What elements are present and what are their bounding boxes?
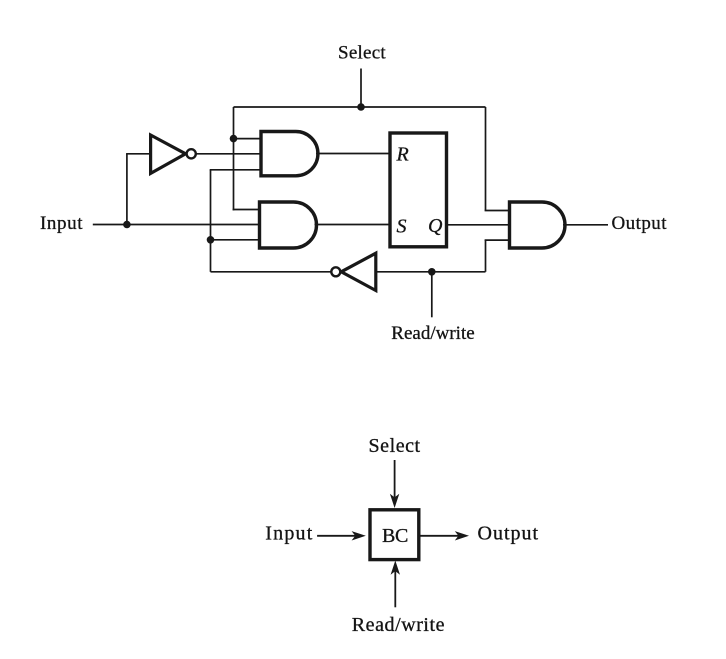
svg-text:S: S <box>397 215 407 237</box>
svg-text:Read/write: Read/write <box>352 614 445 636</box>
svg-text:Q: Q <box>428 215 443 237</box>
svg-text:Select: Select <box>369 435 421 457</box>
svg-text:Output: Output <box>478 523 540 545</box>
svg-text:Select: Select <box>338 43 386 64</box>
svg-text:Input: Input <box>40 213 83 234</box>
svg-text:R: R <box>396 143 409 165</box>
svg-text:BC: BC <box>382 525 408 547</box>
svg-text:Input: Input <box>265 523 313 545</box>
svg-text:Read/write: Read/write <box>391 323 474 344</box>
svg-text:Output: Output <box>612 213 668 234</box>
